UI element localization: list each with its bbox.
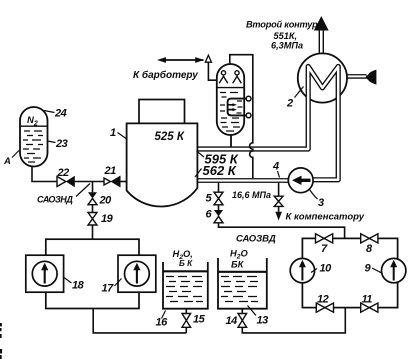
svg-text:4: 4	[272, 161, 279, 173]
valve 6	[214, 210, 223, 216]
tank 13 (H2O BK)	[218, 258, 267, 309]
wire: N2 tank to valve 22	[32, 167, 57, 182]
svg-text:9: 9	[365, 263, 372, 275]
wire: SG right pipe to turbine horn (double line)	[342, 74, 367, 79]
pump 9	[382, 258, 406, 282]
N2 tank liquid dashes	[23, 131, 43, 162]
valve 22	[57, 177, 66, 187]
label 3	[310, 190, 318, 200]
main circulation pump 3	[288, 168, 313, 193]
svg-text:16,6 МПа: 16,6 МПа	[232, 190, 271, 200]
svg-text:14: 14	[226, 315, 238, 327]
svg-text:562 К: 562 К	[203, 163, 237, 178]
safety valve symbol right	[233, 71, 242, 84]
wire: SAOZ VD feed line	[219, 223, 345, 239]
valve 19	[88, 213, 97, 219]
label 9	[372, 268, 383, 274]
reactor head	[139, 100, 185, 124]
valve 20	[88, 192, 97, 198]
svg-text:16: 16	[156, 317, 169, 329]
label 24	[44, 111, 55, 113]
svg-text:15: 15	[193, 314, 206, 326]
svg-text:525 К: 525 К	[155, 131, 185, 143]
wire: primary hot leg + SG coil M + downcomer (double line)	[197, 67, 338, 180]
reactor vessel 1	[127, 123, 198, 206]
safety valve symbol left	[219, 71, 228, 84]
svg-text:3: 3	[318, 197, 324, 209]
wire: pressurizer relief to bubbler	[208, 62, 217, 80]
pressurizer liquid level	[217, 87, 244, 89]
page margin marks	[0, 323, 2, 338]
electric heater element	[228, 99, 247, 116]
valve 5	[214, 192, 223, 198]
svg-text:12: 12	[317, 294, 329, 306]
valve 15	[182, 314, 191, 321]
svg-text:САОЗВД: САОЗВД	[236, 234, 276, 245]
svg-text:18: 18	[72, 280, 85, 292]
svg-text:551К,: 551К,	[274, 31, 298, 41]
label 10	[311, 269, 317, 273]
label 2	[295, 87, 304, 98]
label 4	[278, 171, 280, 178]
label 16	[162, 311, 166, 319]
wire: cold leg taps to valves 5,6	[218, 183, 220, 193]
svg-text:2: 2	[286, 98, 293, 110]
svg-text:САОЗНД: САОЗНД	[37, 195, 73, 205]
svg-text:7: 7	[321, 243, 328, 255]
tank 16 (H2O BK)	[163, 262, 208, 309]
svg-text:23: 23	[55, 138, 68, 150]
pump 18	[32, 261, 57, 286]
heater terminal top	[246, 96, 251, 101]
turbine horn symbol	[366, 70, 377, 85]
svg-text:БК: БК	[231, 260, 245, 270]
svg-text:24: 24	[54, 108, 67, 120]
wire: SG top steam pipe (double line)	[319, 28, 324, 57]
steam outlet arrow (Второй контур)	[314, 16, 329, 31]
svg-text:19: 19	[101, 213, 114, 225]
SAOZ ND loop rectangle	[46, 239, 139, 308]
label 595K	[197, 151, 205, 157]
label 17	[115, 279, 122, 287]
pressurizer vessel	[217, 64, 244, 135]
svg-text:К компенсатору: К компенсатору	[286, 212, 365, 223]
wire: SAOZ ND loop drain to tank 16	[93, 309, 186, 333]
svg-text:17: 17	[102, 283, 115, 295]
wire: tank 13 to valve 14	[241, 309, 243, 314]
label SAOZND	[76, 184, 90, 197]
svg-text:Б К: Б К	[179, 259, 193, 268]
valve 14	[238, 314, 247, 321]
valve 12	[316, 303, 325, 312]
gas/liquid separator line	[21, 125, 48, 127]
wire: relief down line with pipe jump	[250, 54, 253, 179]
label 23	[48, 141, 56, 143]
svg-text:13: 13	[257, 315, 269, 327]
valve 21	[104, 178, 111, 185]
compensator arrow	[275, 212, 282, 221]
wire: to compensator	[278, 183, 280, 197]
pump 17 square	[118, 255, 156, 292]
svg-text:21: 21	[104, 165, 117, 177]
label 1	[118, 133, 128, 140]
label 13	[248, 306, 257, 316]
svg-text:К барботеру: К барботеру	[133, 69, 198, 81]
wire: junction down through valves 20,19 to SAOZ ND loop	[92, 182, 94, 240]
N2 accumulator vessel A	[20, 107, 48, 167]
svg-text:5: 5	[206, 193, 213, 205]
label 562K	[195, 169, 202, 178]
label A	[12, 151, 19, 158]
svg-text:6,3МПа: 6,3МПа	[271, 41, 303, 51]
valve 8	[361, 234, 370, 243]
svg-text:10: 10	[320, 263, 333, 275]
open arrowhead to bubbler line	[205, 55, 211, 62]
wire: valve 14 to SAOZ VD loop drain	[242, 308, 345, 333]
wire: valve22 to valve21	[75, 181, 104, 183]
bubbler double-headed arrow	[164, 59, 204, 61]
pump 10	[290, 258, 314, 282]
heater terminal bottom	[246, 113, 251, 118]
svg-text:22: 22	[57, 167, 70, 179]
svg-text:Второй контур: Второй контур	[246, 20, 318, 30]
SAOZ VD loop rectangle	[302, 238, 397, 307]
valve 7	[316, 234, 325, 243]
pump 18 square	[26, 255, 64, 292]
svg-text:6: 6	[206, 209, 213, 221]
wire: tank 16 to valve 15	[185, 309, 187, 314]
svg-text:8: 8	[366, 243, 373, 255]
svg-text:11: 11	[362, 294, 373, 306]
svg-text:1: 1	[110, 127, 116, 139]
pressurizer liquid dashes	[220, 93, 243, 132]
wire: primary cold leg reactor to pump 3 (double line)	[197, 178, 290, 183]
wire: between valve 5 and 6	[218, 205, 220, 210]
valve 11	[361, 303, 370, 312]
pump 17	[124, 261, 149, 286]
label 18	[64, 278, 72, 284]
wire: pressurizer surge line	[230, 135, 232, 147]
svg-text:20: 20	[99, 195, 113, 207]
svg-text:А: А	[3, 156, 11, 167]
compensator valve	[274, 196, 283, 201]
wire: pressurizer top line over to downline	[230, 55, 253, 65]
wire: valve21 to reactor	[121, 181, 127, 183]
steam generator U2 circle	[298, 53, 347, 102]
